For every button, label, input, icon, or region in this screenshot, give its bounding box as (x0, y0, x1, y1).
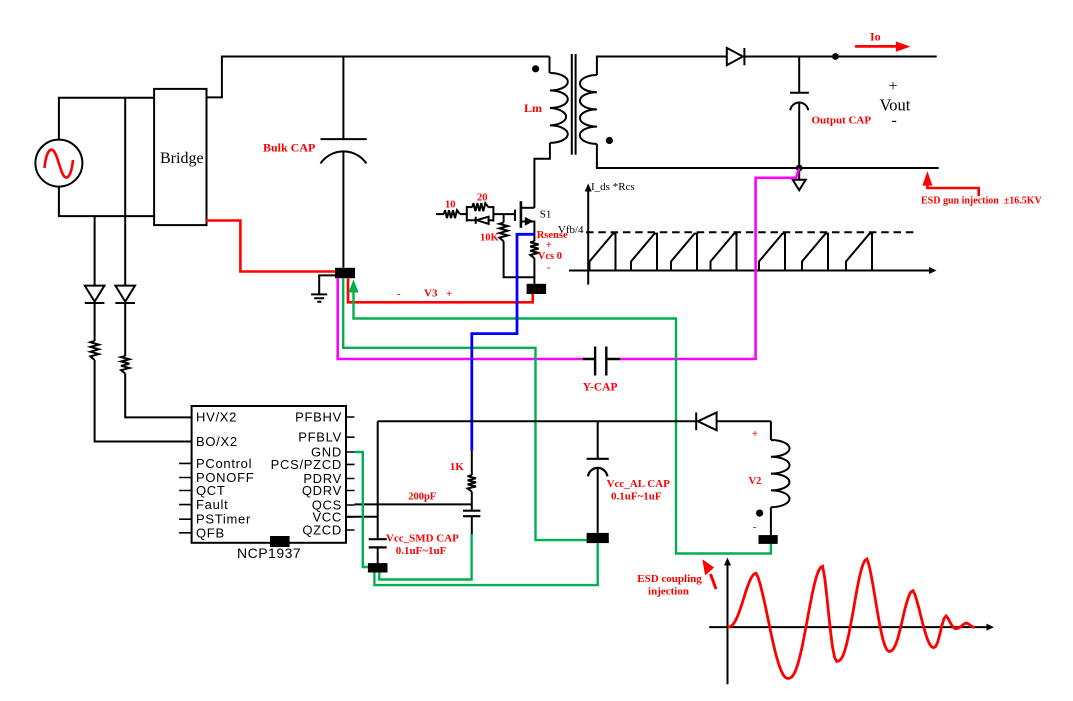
svg-text:BO/X2: BO/X2 (196, 434, 238, 449)
AC source V1 (35, 140, 82, 187)
wire to BO/X2 (95, 360, 192, 442)
ringing waveform (728, 559, 975, 679)
wire AC top to top node (59, 98, 154, 140)
svg-text:-: - (753, 522, 757, 533)
IC right pin stubs (346, 417, 355, 530)
svg-text:HV/X2: HV/X2 (196, 410, 237, 425)
wire magenta from GND node to Y-CAP (338, 278, 585, 359)
svg-text:ESD gun injection ±16.5KV: ESD gun injection ±16.5KV (921, 196, 1043, 207)
winding V2 (771, 421, 790, 535)
MOSFET S1 (436, 201, 534, 241)
svg-text:injection: injection (648, 586, 689, 598)
capacitor Y-CAP (583, 347, 621, 376)
svg-text:PSTimer: PSTimer (196, 512, 251, 527)
svg-text:Vcc_SMD CAP: Vcc_SMD CAP (386, 533, 459, 545)
svg-text:V3: V3 (424, 288, 438, 300)
node box V2 gnd (759, 535, 778, 544)
resistor 10K (499, 223, 507, 242)
source arrow (525, 217, 534, 226)
svg-text:S1: S1 (540, 208, 552, 220)
diode D_N input (115, 286, 135, 303)
wire (94, 303, 96, 341)
wire Vcc_AL vertical (597, 421, 599, 533)
capacitor 200pF plates (463, 511, 480, 517)
bulk capacitor plates (321, 139, 367, 163)
arrow Io (855, 45, 897, 48)
wire 1K to 200pF (471, 492, 473, 511)
wire QCS pin (355, 503, 472, 505)
svg-text:-: - (397, 288, 401, 300)
capacitor Vcc_SMD plates (369, 539, 387, 547)
transformer primary top wire (549, 57, 551, 74)
ground wire from node (319, 275, 335, 293)
node box Vcc_AL gnd (587, 533, 609, 543)
svg-text:Io: Io (870, 30, 881, 44)
svg-text:+: + (546, 240, 552, 251)
svg-text:NCP1937: NCP1937 (237, 545, 301, 561)
gate diode bottom branch (467, 217, 494, 224)
svg-text:Lm: Lm (524, 101, 542, 115)
sawtooth ramps (590, 234, 873, 271)
svg-text:I_ds *Rcs: I_ds *Rcs (591, 181, 635, 193)
wire green A: gnd node to Vcc_AL box (343, 278, 586, 540)
ground symbol primary (311, 294, 327, 301)
ESD gun arrow (922, 171, 932, 186)
bulk capacitor wire bottom (342, 151, 344, 268)
wire bridge to top rail (207, 57, 550, 98)
wire (124, 303, 126, 356)
wire (460, 213, 467, 215)
gate bar (514, 210, 516, 221)
resistor R_N (121, 356, 129, 374)
wire red V3 (348, 278, 533, 302)
output capacitor wire (798, 57, 800, 93)
svg-text:Rsense: Rsense (537, 230, 568, 241)
svg-text:ESD coupling: ESD coupling (637, 573, 702, 585)
svg-text:-: - (547, 263, 551, 274)
dot primary polarity (532, 65, 539, 72)
wire green C: GND pin to box (355, 452, 369, 567)
svg-text:0.1uF~1uF: 0.1uF~1uF (611, 491, 662, 503)
gate lead (436, 213, 444, 215)
dot secondary polarity (606, 137, 613, 144)
capacitor Vcc_AL plates (587, 459, 609, 477)
ESD coupling arrow (711, 574, 717, 589)
svg-text:PControl: PControl (196, 456, 252, 471)
svg-text:+: + (752, 429, 758, 440)
parallel box bars (467, 206, 494, 222)
transformer secondary winding (580, 75, 597, 144)
wire vertical line input N (124, 98, 126, 286)
channel bar (520, 201, 523, 228)
resistor Rsense (530, 241, 538, 258)
svg-text:Bulk CAP: Bulk CAP (263, 141, 315, 155)
wire 10K to source (504, 241, 535, 277)
svg-text:PCS/PZCD: PCS/PZCD (271, 457, 342, 472)
node box source shunt (527, 284, 547, 294)
bridge rectifier block (154, 89, 206, 225)
output diode (727, 48, 745, 65)
ringing axes (709, 564, 988, 684)
svg-text:QCT: QCT (196, 483, 226, 498)
resistor 1K (468, 475, 476, 491)
wire green D: box bottom to Vcc_AL box (374, 543, 597, 585)
output capacitor plates (790, 93, 809, 111)
svg-text:QZCD: QZCD (302, 523, 342, 538)
svg-text:10: 10 (445, 199, 456, 210)
wire Rsense to box (533, 258, 535, 284)
node box primary GND (335, 268, 355, 278)
resistor 10 (444, 210, 460, 218)
wire green B: arrow to V2 box (354, 291, 771, 554)
svg-text:Output CAP: Output CAP (812, 115, 872, 127)
wire to gate (493, 213, 515, 215)
transformer primary winding Lm (550, 73, 568, 143)
wire to HV/X2 (125, 374, 191, 418)
wire AC bottom (59, 187, 154, 217)
junction dot output (832, 53, 839, 60)
axis arrowheads (585, 184, 592, 192)
junction dot secondary return (796, 165, 803, 172)
drain lead (521, 207, 535, 209)
svg-text:Fault: Fault (196, 497, 228, 512)
svg-text:0.1uF~1uF: 0.1uF~1uF (396, 545, 447, 557)
lower rail (378, 420, 771, 422)
waveform axes I_ds (569, 190, 930, 285)
open triangle secondary gnd (793, 168, 806, 190)
svg-text:20: 20 (477, 192, 488, 203)
bulk capacitor wire top (342, 57, 344, 140)
green arrowhead at gnd node (348, 280, 358, 293)
svg-text:1K: 1K (450, 461, 465, 473)
diode D_V2 (696, 413, 716, 431)
AC sine symbol (45, 150, 74, 178)
svg-text:QFB: QFB (196, 526, 225, 541)
IC left pin stubs (179, 463, 192, 532)
transformer core (572, 54, 576, 155)
IC U1 NCP1937 (192, 406, 346, 543)
svg-text:+: + (889, 78, 898, 95)
resistor 10K wire (503, 214, 505, 223)
node box Vcc_SMD gnd (368, 563, 388, 572)
source lead (521, 222, 535, 242)
wire 200pF bottom (471, 516, 473, 534)
svg-text:PFBHV: PFBHV (295, 410, 342, 425)
wire vertical line input L (94, 216, 96, 286)
wire diode to rail end (744, 56, 936, 58)
svg-text:Bridge: Bridge (160, 150, 204, 167)
svg-text:10K: 10K (480, 232, 500, 243)
diode D_L input (85, 286, 105, 303)
svg-text:+: + (446, 288, 452, 300)
wire black 1K top (471, 451, 473, 476)
svg-text:Vcs 0: Vcs 0 (538, 251, 562, 262)
wire red bridge to GND node (206, 221, 335, 272)
wire blue QCS to Rsense (472, 234, 535, 450)
transformer secondary top wire (597, 57, 727, 76)
output capacitor bottom wire (798, 102, 800, 169)
svg-text:Vcc_AL CAP: Vcc_AL CAP (607, 478, 671, 490)
svg-text:V2: V2 (749, 476, 762, 487)
wire green E: 200pF gnd (379, 534, 471, 579)
resistor R_L (90, 341, 98, 360)
svg-text:QDRV: QDRV (302, 483, 342, 498)
wire VCC pin (346, 516, 378, 518)
wire Vcc_SMD vertical (377, 421, 379, 563)
transformer primary bottom wire (534, 143, 550, 208)
dot V2 polarity (756, 509, 763, 516)
svg-text:Y-CAP: Y-CAP (583, 382, 618, 394)
wire magenta Y-CAP to secondary return (620, 169, 799, 360)
svg-text:-: - (892, 112, 897, 129)
transformer secondary bottom wire (597, 144, 939, 168)
IC pin labels right (271, 410, 342, 538)
resistor 20 top branch (467, 203, 494, 211)
svg-text:200pF: 200pF (408, 492, 436, 503)
IC pin labels left (196, 410, 254, 541)
IC gnd tab (270, 536, 290, 547)
svg-text:PFBLV: PFBLV (298, 430, 342, 445)
